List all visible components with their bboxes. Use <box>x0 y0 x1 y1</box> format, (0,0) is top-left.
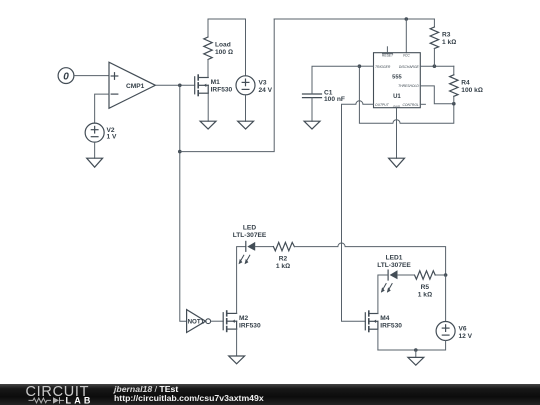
LED (D1) LTL-307EE <box>233 225 267 265</box>
CircuitLab logo <box>0 384 100 405</box>
wire OUTPUT pin with hop, down to M4 gate <box>342 101 374 321</box>
resistor R4 <box>450 66 483 104</box>
svg-text:CONTROL: CONTROL <box>402 103 418 107</box>
ground (bottom rail) <box>408 357 424 365</box>
transistor M1 <box>195 75 233 95</box>
wire CMP1 minus input to V2 <box>95 94 109 123</box>
svg-text:555: 555 <box>392 75 402 81</box>
svg-text:V3: V3 <box>259 80 267 87</box>
wire V2 to ground <box>94 142 96 158</box>
svg-text:VCC: VCC <box>403 54 411 58</box>
wire M4 source to bottom rail <box>377 329 379 350</box>
wire M2 drain up to LED <box>237 247 246 314</box>
resistor R3 <box>430 19 456 66</box>
svg-text:0: 0 <box>63 71 69 82</box>
svg-text:THRESHOLD: THRESHOLD <box>398 84 419 88</box>
wire junction to top rail <box>180 19 274 152</box>
svg-text:R2: R2 <box>279 256 288 263</box>
wire M1 source to ground <box>207 93 209 121</box>
svg-text:R3: R3 <box>442 31 451 38</box>
wire M2 source to ground <box>236 329 238 356</box>
ground (M1) <box>200 121 216 129</box>
wire LED1 to R5 <box>398 274 415 276</box>
node junction at CMP1 output <box>178 84 182 88</box>
svg-text:LED1: LED1 <box>386 255 403 262</box>
555 CONTROL pin stub <box>420 103 425 105</box>
footer meta text <box>114 385 264 405</box>
logic inverter NOT1 <box>187 310 211 333</box>
svg-text:IRF530: IRF530 <box>380 323 402 330</box>
wire R5 to junction <box>435 274 445 276</box>
svg-text:TRIGGER: TRIGGER <box>375 65 391 69</box>
svg-text:1 kΩ: 1 kΩ <box>442 39 456 46</box>
svg-text:100 kΩ: 100 kΩ <box>461 87 483 94</box>
svg-text:NOT1: NOT1 <box>188 319 205 326</box>
node junction 555 supply tap <box>178 150 182 154</box>
555 RESET pin stub <box>386 47 388 53</box>
node junction threshold / R4 bottom <box>452 102 456 106</box>
svg-text:1 kΩ: 1 kΩ <box>418 291 432 298</box>
svg-text:100 nF: 100 nF <box>324 96 345 103</box>
wire node 0 to CMP1 plus input <box>74 75 109 77</box>
svg-text:LTL-307EE: LTL-307EE <box>377 262 411 269</box>
wire output bus down to NOT1 row <box>180 85 187 321</box>
resistor R2 <box>273 242 294 270</box>
wire DISCHARGE pin to R3/R4 <box>420 65 454 67</box>
wire V6 bottom rail <box>378 341 446 351</box>
ground (C1) <box>304 121 320 129</box>
svg-text:M4: M4 <box>380 315 389 322</box>
node junction R3 bottom <box>433 64 437 68</box>
wire TRIGGER pin <box>359 65 373 67</box>
svg-text:OUTPUT: OUTPUT <box>375 103 390 107</box>
wire R2 to V6 node with hop <box>294 243 445 275</box>
svg-text:R5: R5 <box>421 284 430 291</box>
ground (V3) <box>238 121 254 129</box>
node 0 <box>58 68 74 84</box>
svg-text:U1: U1 <box>393 94 401 100</box>
svg-text:CMP1: CMP1 <box>126 83 145 90</box>
wire CMP1 output to M1 gate <box>155 84 194 86</box>
svg-text:LAB: LAB <box>66 395 94 405</box>
IC U1 555 timer <box>374 53 421 109</box>
voltage source V2 <box>85 123 117 142</box>
wire LED to R2 <box>255 246 273 248</box>
svg-text:1 kΩ: 1 kΩ <box>276 263 290 270</box>
capacitor C1 <box>303 89 345 103</box>
ground (U1) <box>389 158 405 167</box>
svg-text:M2: M2 <box>239 315 248 322</box>
transistor M2 <box>223 311 261 331</box>
svg-text:DISCHARGE: DISCHARGE <box>399 65 420 69</box>
node junction VCC <box>405 17 409 21</box>
wire C1 top to trigger junction <box>312 66 359 94</box>
wire V3 stub from rail <box>245 19 247 76</box>
svg-text:12 V: 12 V <box>459 333 473 340</box>
LED LED1 LTL-307EE <box>377 255 411 293</box>
svg-text:100 Ω: 100 Ω <box>215 49 233 56</box>
transistor M4 <box>365 311 402 331</box>
op-amp CMP1 <box>109 62 155 108</box>
ground (V2) <box>87 158 103 167</box>
resistor R5 <box>415 271 436 299</box>
voltage source V6 <box>436 322 473 341</box>
wire C1 bottom to ground <box>311 98 313 122</box>
wire VCC stub <box>405 19 407 53</box>
wire Load to M1 drain <box>207 60 209 78</box>
svg-text:LED: LED <box>243 225 256 232</box>
node junction R5/V6 <box>444 273 448 277</box>
svg-text:IRF530: IRF530 <box>211 87 233 94</box>
wire M4 drain to LED1 <box>378 275 388 314</box>
wire 555 GND to ground <box>396 108 398 159</box>
footer bar <box>0 384 540 405</box>
svg-text:RESET: RESET <box>382 54 394 58</box>
wire top rail left (Load to V3) <box>208 18 246 20</box>
svg-text:M1: M1 <box>211 79 220 86</box>
wire trigger-threshold link with hop <box>359 66 453 123</box>
svg-text:IRF530: IRF530 <box>239 323 261 330</box>
wire ground stub (bottom) <box>415 350 417 357</box>
wire V3 to ground <box>245 95 247 121</box>
ground (M2) <box>229 356 245 364</box>
wire THRESHOLD pin to R4 bottom <box>420 86 454 104</box>
svg-text:LTL-307EE: LTL-307EE <box>233 232 267 239</box>
wire junction to V6 <box>445 275 447 322</box>
svg-text:24 V: 24 V <box>259 87 273 94</box>
svg-text:1 V: 1 V <box>107 134 117 141</box>
node junction bottom ground <box>414 348 418 352</box>
svg-text:Load: Load <box>215 42 231 49</box>
voltage source V3 <box>236 76 273 95</box>
svg-text:V6: V6 <box>459 325 467 332</box>
node junction trigger <box>358 64 362 68</box>
resistor Load <box>204 19 233 60</box>
svg-text:R4: R4 <box>461 79 470 86</box>
wire top rail (555 supply) <box>274 18 434 20</box>
wire NOT1 output to M2 gate <box>211 320 223 322</box>
